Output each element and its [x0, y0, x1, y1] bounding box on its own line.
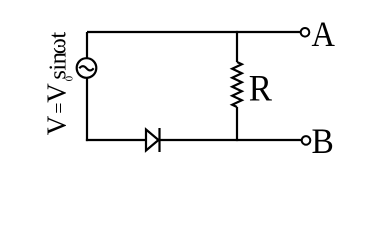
- resistor R zigzag: [232, 62, 242, 107]
- svg-text:A: A: [312, 14, 336, 54]
- wire resistor branch upper: [236, 31, 238, 62]
- AC source sine symbol: [79, 66, 93, 70]
- terminal B circle: [302, 136, 311, 145]
- wire top: source to node and terminal A: [87, 31, 300, 33]
- wire bottom diode to terminal B: [160, 139, 302, 141]
- AC source V1 circle: [77, 58, 97, 78]
- svg-text:B: B: [312, 121, 334, 161]
- svg-text:V: V: [42, 115, 72, 135]
- svg-text:ωt: ωt: [45, 32, 72, 55]
- svg-text:V: V: [42, 83, 72, 103]
- svg-text:=: =: [49, 103, 71, 114]
- wire left upper: [86, 32, 88, 58]
- wire resistor branch lower: [236, 107, 238, 141]
- diode D1 cathode bar: [158, 128, 160, 152]
- svg-text:R: R: [249, 68, 272, 109]
- terminal A circle: [301, 28, 310, 37]
- diode D1 triangle: [146, 130, 159, 151]
- wire bottom left to diode: [86, 139, 146, 141]
- svg-text:sin: sin: [45, 52, 72, 79]
- wire left lower: [86, 78, 88, 141]
